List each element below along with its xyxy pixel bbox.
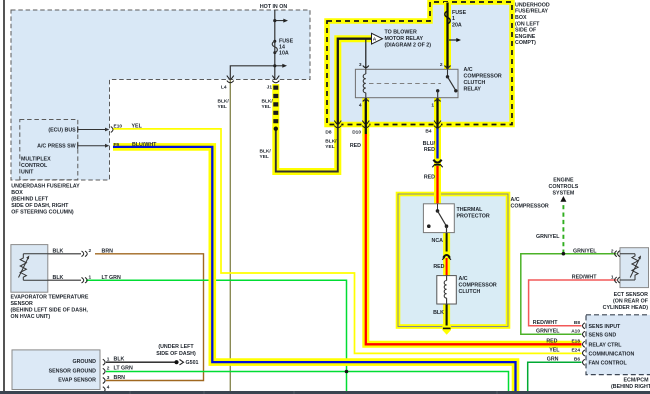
svg-text:RED: RED [433, 264, 444, 270]
svg-text:1: 1 [611, 275, 614, 281]
svg-text:MOTOR RELAY: MOTOR RELAY [385, 36, 424, 42]
svg-text:GRN/YEL: GRN/YEL [536, 329, 560, 335]
connector chevron D10 [362, 121, 369, 128]
svg-text:CONTROL: CONTROL [21, 163, 48, 169]
svg-text:RELAY: RELAY [464, 87, 482, 93]
svg-text:UNDERHOOD: UNDERHOOD [515, 2, 550, 8]
relay switch [447, 69, 449, 76]
svg-text:(BEHIND RIGHT: (BEHIND RIGHT [611, 384, 650, 390]
svg-text:A: A [373, 37, 377, 43]
svg-text:2: 2 [107, 366, 110, 372]
wire LT GRN sensor ground run [106, 372, 509, 392]
svg-text:3: 3 [359, 62, 362, 68]
svg-text:BLK/: BLK/ [260, 148, 272, 154]
wire RED segment into clutch [446, 258, 448, 276]
flow arrow at fuse 1 [449, 39, 457, 41]
svg-text:1: 1 [89, 274, 92, 280]
svg-text:SIDE OF DASH): SIDE OF DASH) [156, 351, 196, 357]
svg-text:COMMUNICATION: COMMUNICATION [589, 351, 635, 357]
svg-text:1: 1 [107, 356, 110, 362]
svg-text:D8: D8 [325, 129, 331, 135]
svg-text:RED: RED [424, 174, 435, 180]
wire NCA black segment [446, 233, 448, 252]
svg-text:SENS INPUT: SENS INPUT [589, 324, 622, 330]
svg-text:FAN CONTROL: FAN CONTROL [589, 360, 628, 366]
thermal protector box [423, 204, 454, 233]
bottom dark bar [0, 391, 650, 394]
svg-text:UNIT: UNIT [21, 170, 34, 176]
connector chevron B4 [434, 121, 441, 128]
svg-text:BLK/: BLK/ [218, 98, 230, 104]
svg-text:YEL: YEL [260, 154, 269, 160]
svg-text:BRN: BRN [114, 375, 126, 381]
svg-text:D10: D10 [352, 129, 361, 135]
evaporator temperature sensor box [11, 245, 48, 293]
wire L4 BLK/YEL (olive, runs to bottom) [229, 80, 231, 392]
svg-text:SENS GND: SENS GND [589, 332, 617, 338]
wire D8 up to blower arrow casing [338, 39, 372, 125]
connector chevron relay pin2 [445, 66, 451, 68]
wire GRN fan control B6 [528, 362, 582, 391]
svg-text:(ON LEFT: (ON LEFT [515, 21, 540, 27]
wire BLK/YEL J1 splice to D8 core [276, 125, 338, 172]
A/C compressor clutch coil box [437, 276, 457, 304]
ECT thermistor [620, 254, 638, 280]
wire (ECU) BUS lead with arrow [78, 129, 106, 131]
svg-text:ENGINE: ENGINE [515, 34, 536, 40]
svg-text:A10: A10 [571, 329, 580, 335]
wire BLK clutch to ground [446, 304, 448, 328]
svg-text:(ON REAR OF: (ON REAR OF [613, 299, 649, 305]
svg-text:BOX: BOX [515, 15, 527, 21]
relay box A/C compressor clutch relay U1 [355, 69, 458, 97]
wire BLU/WHT core F9 to bottom [113, 147, 516, 392]
wire YEL E10 to ECM E24 [113, 129, 582, 354]
svg-text:CLUTCH: CLUTCH [464, 80, 486, 86]
svg-text:ECM/PCM: ECM/PCM [623, 378, 649, 384]
svg-text:A/C: A/C [464, 67, 473, 73]
wire GRN/YEL dashed branch to engine controls system [562, 203, 564, 254]
svg-text:YEL: YEL [325, 144, 334, 150]
svg-text:YEL: YEL [262, 104, 271, 110]
svg-text:COMPRESSOR: COMPRESSOR [511, 204, 549, 210]
connector chevrons evap pin2 [82, 251, 88, 257]
svg-text:BLK: BLK [114, 356, 125, 362]
wire fuse1 to relay pin2 core [446, 3, 448, 70]
svg-text:RED: RED [546, 339, 557, 345]
svg-text:B4: B4 [425, 129, 431, 135]
svg-text:LT GRN: LT GRN [102, 275, 121, 281]
svg-text:FUSE: FUSE [452, 10, 467, 16]
svg-text:BLK: BLK [53, 249, 64, 255]
svg-text:COMPT): COMPT) [515, 40, 536, 46]
wire thermal protector to clutch to ground casing [443, 233, 450, 325]
left page border line [3, 0, 5, 391]
svg-text:FUSE/RELAY: FUSE/RELAY [515, 9, 549, 15]
evap BLK leads [48, 253, 81, 255]
relay mechanical dashed link [369, 83, 441, 85]
svg-text:SIDE OF: SIDE OF [515, 28, 537, 34]
wire BLK ground pin1 to G501 [106, 361, 176, 363]
svg-text:B8: B8 [574, 320, 580, 326]
ground terminal at compressor case (yellow point with black bar) [442, 326, 451, 335]
svg-text:SENSOR GROUND: SENSOR GROUND [49, 368, 97, 374]
wire LT GRN evap pin1 down to splice [86, 280, 347, 391]
svg-text:E24: E24 [571, 347, 580, 353]
svg-text:MULTIPLEX: MULTIPLEX [21, 157, 51, 163]
wire BLK/YEL J1 splice to D8 casing [276, 125, 338, 172]
connector chevron HVAC pin2 [103, 368, 105, 374]
svg-text:NCA: NCA [432, 238, 444, 244]
svg-text:E18: E18 [571, 339, 580, 345]
connector chevron ECM E24 [583, 350, 585, 356]
ECT sensor box [620, 248, 649, 288]
svg-text:BOX: BOX [11, 190, 23, 196]
flow arrow at fuse 14 lower junction [275, 65, 283, 67]
svg-text:YEL: YEL [218, 104, 227, 110]
svg-text:A/C: A/C [511, 197, 520, 203]
svg-text:EVAPORATOR TEMPERATURE: EVAPORATOR TEMPERATURE [11, 294, 89, 300]
connector chevron E10 [111, 127, 113, 133]
ground G501 symbol [174, 360, 178, 364]
svg-text:UNDERDASH FUSE/RELAY: UNDERDASH FUSE/RELAY [11, 183, 80, 189]
junction dot GRN/YEL [562, 252, 566, 256]
relay coil [363, 69, 366, 97]
wire branch to L4 [230, 66, 274, 80]
wire RED/WHT ECT pin1 to ECM B8 [529, 280, 617, 326]
connector chevron relay pin1 [435, 99, 441, 101]
connector chevron relay pin4 [363, 99, 369, 101]
connector chevron HVAC pin1 [103, 359, 105, 365]
wire fuse1 to relay pin2 casing [444, 2, 451, 69]
connector chevron ECT pin2 [615, 251, 620, 257]
svg-text:E10: E10 [114, 124, 123, 130]
A/C compressor box (light blue, yellow highlighted border) [398, 194, 508, 327]
svg-text:RED: RED [424, 147, 435, 153]
connector chevron ECM E18 [583, 341, 585, 347]
wire D8 up to blower arrow core [338, 39, 372, 125]
svg-text:TO BLOWER: TO BLOWER [385, 30, 417, 36]
flow arrow at fuse 14 [275, 20, 284, 22]
wire relay pin4 to D10 black segment casing [362, 98, 369, 136]
svg-text:CONTROLS: CONTROLS [549, 184, 579, 190]
in-line connector NCA [443, 255, 450, 258]
svg-text:SIDE OF DASH, RIGHT: SIDE OF DASH, RIGHT [11, 203, 69, 209]
svg-text:PROTECTOR: PROTECTOR [457, 213, 490, 219]
fuse 14 symbol [273, 40, 276, 43]
ECM/PCM box (dashed, light blue) [586, 315, 650, 375]
svg-text:3: 3 [107, 375, 110, 381]
triangle arrow A to blower motor relay [372, 33, 383, 44]
thermal protector switch [437, 204, 439, 211]
svg-text:ON HVAC UNIT): ON HVAC UNIT) [11, 314, 51, 320]
svg-text:2: 2 [440, 62, 443, 68]
svg-text:COMPRESSOR: COMPRESSOR [464, 74, 502, 80]
svg-text:BLK: BLK [433, 310, 444, 316]
svg-text:OF STEERING COLUMN): OF STEERING COLUMN) [11, 210, 74, 216]
svg-text:GROUND: GROUND [72, 359, 96, 365]
HVAC control unit box (bottom left) [12, 350, 100, 390]
junction dot fuse14 lower [273, 64, 276, 67]
wire BLU/WHT casing (highlight) [113, 147, 516, 392]
connector chevron relay pin3 [363, 66, 369, 68]
svg-text:A/C PRESS SW: A/C PRESS SW [37, 144, 76, 150]
svg-text:A/C: A/C [459, 276, 468, 282]
svg-text:GRN: GRN [547, 356, 559, 362]
wire GRN/YEL ECT pin2 to ECM A10 [521, 254, 617, 335]
svg-text:4: 4 [107, 384, 110, 390]
splice dot LT GRN [345, 370, 349, 374]
svg-text:14: 14 [279, 44, 285, 50]
wire RED segment into thermal protector [436, 166, 438, 204]
svg-text:RED/WHT: RED/WHT [572, 275, 597, 281]
svg-text:L4: L4 [221, 85, 227, 91]
wire RED D10 to ECM E18 core [366, 134, 582, 344]
svg-text:BRN: BRN [102, 249, 114, 255]
connector chevron HVAC pin3 [103, 378, 105, 384]
svg-text:EVAP SENSOR: EVAP SENSOR [58, 378, 96, 384]
wire BRN evap pin2 to EVAP SENSOR pin3 [95, 254, 204, 381]
svg-text:BLU/WHT: BLU/WHT [132, 142, 157, 148]
underdash fuse/relay box (L-shaped, light blue, dashed) [11, 10, 310, 180]
svg-text:RELAY CTRL: RELAY CTRL [589, 342, 623, 348]
evap thermistor [20, 254, 26, 280]
wire relay pin1 to B4 casing [434, 98, 441, 204]
svg-text:20A: 20A [452, 23, 462, 29]
fuse 1 symbol [445, 11, 450, 24]
clutch coil [444, 276, 446, 304]
multiplex control unit box (dashed) [20, 120, 78, 180]
svg-text:SENSOR: SENSOR [11, 301, 34, 307]
svg-text:10A: 10A [279, 51, 289, 57]
svg-text:J1: J1 [267, 85, 273, 91]
svg-text:HOT IN ON: HOT IN ON [260, 4, 288, 10]
wire HOT IN ON feed through fuse 14 [274, 10, 276, 80]
in-line connector on B4 wire [433, 160, 441, 163]
svg-text:RED: RED [350, 143, 361, 149]
junction dot above fuse 14 [273, 19, 276, 22]
svg-text:(ECU) BUS: (ECU) BUS [48, 127, 76, 133]
wire BLU/RED segment below B4 [436, 129, 438, 159]
svg-text:1: 1 [431, 102, 434, 108]
svg-text:2: 2 [89, 248, 92, 254]
splice dot J1 wire [274, 127, 278, 131]
connector chevron L4 [227, 76, 234, 83]
wire relay pin3 branch [365, 39, 367, 70]
svg-text:FUSE: FUSE [279, 38, 294, 44]
svg-text:4: 4 [359, 102, 362, 108]
connector chevrons evap pin1 [82, 277, 88, 283]
svg-text:THERMAL: THERMAL [457, 207, 484, 213]
svg-text:YEL: YEL [549, 347, 560, 353]
svg-text:G501: G501 [186, 360, 199, 366]
svg-text:(UNDER LEFT: (UNDER LEFT [158, 344, 194, 350]
svg-text:YEL: YEL [132, 124, 143, 130]
svg-text:GRN/YEL: GRN/YEL [536, 234, 560, 240]
svg-text:SYSTEM: SYSTEM [553, 191, 575, 197]
connector chevron ECM B8 [583, 323, 585, 329]
svg-text:LT GRN: LT GRN [114, 366, 133, 372]
svg-text:BLK/: BLK/ [262, 98, 274, 104]
svg-text:BLK/: BLK/ [325, 138, 337, 144]
connector chevron ECM B6 [583, 359, 585, 365]
connector chevron ECM A10 [583, 331, 585, 337]
svg-text:BLK: BLK [53, 275, 64, 281]
wire A/C PRESS SW lead with arrow [78, 145, 106, 147]
wire BLK/YEL J1 dashed highlighted drop [272, 84, 279, 128]
svg-text:1: 1 [452, 16, 455, 22]
svg-text:ENGINE: ENGINE [553, 178, 574, 184]
svg-text:(BEHIND LEFT SIDE OF DASH,: (BEHIND LEFT SIDE OF DASH, [11, 307, 89, 313]
svg-text:B6: B6 [574, 356, 580, 362]
connector chevron ECT pin1 [615, 277, 620, 283]
svg-text:2: 2 [611, 248, 614, 254]
wire relay pin1 black segment [436, 98, 438, 129]
svg-text:RED/WHT: RED/WHT [533, 320, 558, 326]
svg-text:GRN/YEL: GRN/YEL [573, 248, 597, 254]
wire RED D10 to ECM E18 casing [366, 134, 582, 344]
engine controls system arrow [560, 196, 566, 202]
svg-text:CYLINDER HEAD): CYLINDER HEAD) [603, 305, 649, 311]
connector chevron HVAC pin4 [103, 387, 105, 393]
underhood fuse/relay box (light blue, yellow highlighted dashed border) [327, 2, 512, 125]
svg-text:F9: F9 [114, 142, 120, 148]
svg-text:ECT SENSOR: ECT SENSOR [614, 292, 649, 298]
svg-text:CLUTCH: CLUTCH [459, 289, 481, 295]
svg-text:(BEHIND LEFT: (BEHIND LEFT [11, 197, 49, 203]
connector chevron D8 [334, 121, 341, 128]
connector chevron J1 [272, 76, 279, 83]
svg-text:(DIAGRAM 2 OF 2): (DIAGRAM 2 OF 2) [385, 43, 432, 49]
svg-text:COMPRESSOR: COMPRESSOR [459, 283, 497, 289]
